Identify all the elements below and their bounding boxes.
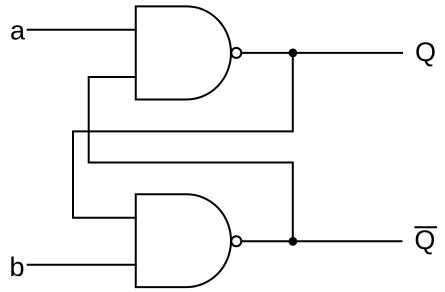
wire Qbar output [242,240,403,242]
wire Q output [242,52,403,54]
svg-text:a: a [10,15,26,45]
NAND gate U2 body [136,194,231,287]
junction node Q [289,49,298,58]
wire Q feedback: down, left, down, to U2 pin 1 [73,53,293,218]
NAND gate U1 body [136,6,231,99]
junction node Qbar [289,237,298,246]
wire Qbar feedback: up, left, up, to U1 pin 2 [89,77,293,241]
wire a to U1 pin 1 [27,29,137,31]
overline of Q-bar [414,226,437,228]
NAND gate U2 output bubble [231,236,241,246]
svg-text:Q: Q [415,37,436,67]
NAND gate U1 output bubble [231,48,241,58]
svg-text:b: b [10,252,25,282]
wire b to U2 pin 2 [27,264,137,266]
svg-text:Q: Q [414,225,435,255]
